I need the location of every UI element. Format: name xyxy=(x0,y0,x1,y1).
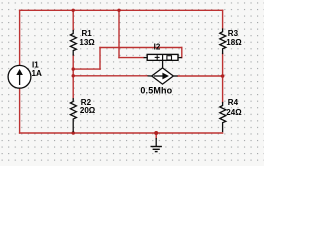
current source I1 xyxy=(8,65,31,88)
wire R1 top lead red xyxy=(72,10,74,30)
svg-text:18Ω: 18Ω xyxy=(226,38,242,47)
resistor R3 xyxy=(220,29,226,54)
wire ground red stub xyxy=(155,133,157,139)
svg-text:0.5Mho: 0.5Mho xyxy=(140,86,172,96)
svg-text:R4: R4 xyxy=(228,98,239,107)
junction dot right column / diamond wire xyxy=(221,74,225,78)
wire right column R3 to R4 xyxy=(222,54,224,103)
wire bottom net xyxy=(20,132,223,134)
wire left column lower (I1 bottom) xyxy=(19,88,21,133)
wire V2 down to box right terminal xyxy=(181,48,183,58)
wire H1 across to V2 xyxy=(100,47,182,49)
junction dot top wire / V1 xyxy=(117,9,120,12)
wire top net xyxy=(20,9,223,11)
wire diamond right to right column xyxy=(178,75,223,77)
junction dot node H4 xyxy=(72,74,75,77)
wire left column upper (I1 top) xyxy=(19,10,21,65)
resistor R2 xyxy=(70,99,76,132)
vccs I2 control box xyxy=(144,54,182,60)
svg-text:13Ω: 13Ω xyxy=(79,38,95,47)
svg-text:R1: R1 xyxy=(82,29,93,38)
junction dot bottom wire / ground xyxy=(154,131,158,135)
svg-text:R3: R3 xyxy=(228,29,239,38)
svg-text:1A: 1A xyxy=(32,69,42,78)
wire R1-R2 middle column xyxy=(72,55,74,99)
vccs I2 diamond xyxy=(148,61,178,84)
junction dot bottom wire / R2 xyxy=(72,131,75,134)
inner divider marks xyxy=(162,55,164,61)
svg-text:I2: I2 xyxy=(154,42,161,51)
svg-text:I1: I1 xyxy=(32,60,39,69)
junction dot node H3 xyxy=(72,67,75,70)
svg-text:24Ω: 24Ω xyxy=(226,108,242,117)
wire H3 node to V3 xyxy=(73,68,100,70)
wire R3 top lead red xyxy=(222,10,224,29)
ground xyxy=(151,138,162,152)
resistor R1 xyxy=(70,31,76,56)
wire H2 to box left terminal xyxy=(119,57,144,59)
wire V3 up to H1 xyxy=(99,48,101,70)
wire V1 from top wire down xyxy=(118,10,120,57)
wire H4 node to diamond left xyxy=(73,75,147,77)
svg-text:20Ω: 20Ω xyxy=(80,106,96,115)
resistor R4 xyxy=(220,103,226,132)
junction dot top wire / R1 xyxy=(72,9,75,12)
plus sign xyxy=(155,56,160,58)
